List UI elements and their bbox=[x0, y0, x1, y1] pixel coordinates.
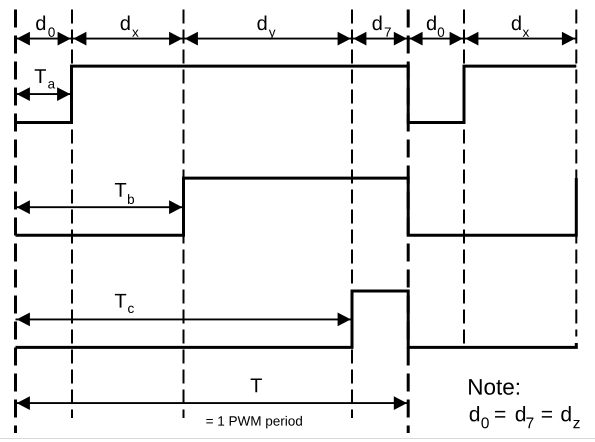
label d0 (first) sub 0 bbox=[48, 27, 54, 37]
dimension arrow Tb bbox=[16, 200, 184, 214]
formula sub 0 bbox=[481, 417, 488, 428]
label Note: bbox=[469, 379, 519, 395]
formula d (2) bbox=[516, 406, 525, 421]
wire: waveform phase A bbox=[16, 66, 577, 122]
dimension arrow d0 (second) bbox=[408, 32, 464, 46]
label Tc T bbox=[115, 294, 126, 308]
node L5: d0/dx boundary dashed line (second period) bbox=[463, 10, 465, 349]
label d0 (first) d bbox=[36, 16, 45, 31]
label dx (second) sub x bbox=[523, 30, 529, 37]
label dy d bbox=[257, 16, 266, 31]
node L1: d0/dx boundary dashed line bbox=[71, 10, 73, 419]
label Ta sub a bbox=[48, 81, 55, 88]
formula = (1) bbox=[495, 411, 505, 418]
dimension arrow d7 bbox=[352, 32, 408, 46]
label dx (first) d bbox=[121, 16, 130, 31]
node L3: dy/d7 boundary dashed line bbox=[351, 10, 353, 419]
label dy sub y bbox=[269, 30, 276, 40]
dimension arrow dy bbox=[184, 32, 353, 46]
label d0 (second) d bbox=[427, 16, 436, 31]
node L2: dx/dy boundary dashed line bbox=[183, 10, 185, 419]
label T (period) bbox=[251, 379, 262, 393]
dimension arrow Ta bbox=[16, 87, 72, 101]
label dx (first) sub x bbox=[132, 30, 138, 37]
label d0 (second) sub 0 bbox=[438, 27, 444, 37]
node L6: end of shown dx dashed line bbox=[575, 10, 577, 337]
label Tb T bbox=[115, 183, 126, 197]
dimension arrow d0 (first) bbox=[16, 32, 73, 46]
label = 1 PWM period bbox=[206, 416, 302, 429]
label Tc sub c bbox=[128, 306, 134, 313]
formula sub 7 bbox=[526, 418, 533, 429]
wire: waveform phase B bbox=[16, 178, 577, 235]
label Ta T bbox=[35, 69, 46, 83]
node L4: period-end boundary dashed line bbox=[407, 10, 410, 434]
label dx (second) d bbox=[512, 16, 521, 31]
formula d (3) bbox=[561, 406, 570, 421]
dimension arrow T (1 PWM period) bbox=[16, 396, 409, 410]
wire: bottom light rule bbox=[0, 438, 595, 440]
dimension arrow dx (second) bbox=[464, 32, 576, 46]
formula sub z bbox=[573, 420, 579, 428]
label Tb sub b bbox=[128, 194, 134, 204]
node L0: period-start boundary dashed line bbox=[14, 10, 17, 434]
label d7 sub 7 bbox=[385, 28, 391, 37]
wire: waveform phase C bbox=[16, 291, 577, 347]
dimension arrow Tc bbox=[16, 313, 353, 327]
label d7 d bbox=[373, 16, 382, 31]
formula = (2) bbox=[542, 411, 552, 418]
dimension arrow dx (first) bbox=[72, 32, 184, 46]
formula d (1) bbox=[470, 406, 479, 421]
